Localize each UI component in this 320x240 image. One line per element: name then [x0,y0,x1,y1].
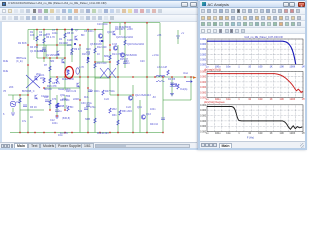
svg-text:(630,8): (630,8) [62,117,70,120]
svg-text:0.22: 0.22 [126,106,131,109]
resistor R22 [94,118,96,123]
transistor Q41 [120,53,124,57]
resistor R6 [94,63,96,68]
wire [103,22,160,24]
svg-text:db(mag(v(Out))): db(mag(v(Out))) [204,68,221,71]
junction [124,22,125,23]
resistor R7 [109,55,111,60]
svg-text:1K: 1K [269,66,272,69]
svg-text:100K: 100K [289,98,295,101]
wire [159,23,161,77]
resistor R13 [87,58,89,63]
svg-text:F (Hz): F (Hz) [246,136,253,140]
svg-text:10p: 10p [46,33,51,36]
svg-text:22K: 22K [40,77,45,80]
svg-text:BC546B_C: BC546B_C [55,105,68,108]
wire [37,44,72,46]
transistor Q3 [62,59,65,64]
svg-text:NFB: NFB [85,118,90,121]
resistor R4 [71,48,73,53]
wire [12,108,14,112]
svg-text:1M: 1M [301,98,304,101]
junction [146,132,147,133]
svg-text:Q10: Q10 [107,31,112,34]
capacitor C4 [55,110,59,112]
wire [43,30,45,63]
wire [146,23,148,133]
junction [71,29,72,30]
resistor R3 [64,33,66,38]
transistor Q2 [75,36,78,41]
wire [124,23,126,68]
battery V2 +63 [176,36,180,38]
resistor R9 [124,40,126,45]
junction [132,76,133,77]
svg-text:10K: 10K [279,132,284,135]
svg-text:meas_amp: meas_amp [58,88,71,91]
junction [64,76,65,77]
wire [27,30,29,133]
svg-text:170.000: 170.000 [200,77,207,79]
svg-text:MJL21194: MJL21194 [97,132,109,135]
junction [49,109,50,110]
junction [43,87,44,88]
svg-text:-63: -63 [152,96,156,99]
junction [27,132,28,133]
svg-text:R8 1K: R8 1K [67,32,74,35]
svg-text:Q30: Q30 [60,94,65,97]
svg-text:C5 100n: C5 100n [84,30,94,33]
node Out arrow [186,80,192,82]
svg-text:1: 1 [238,98,240,101]
wire [117,45,119,133]
svg-text:R47 62A: R47 62A [105,90,115,93]
svg-text:R12 220: R12 220 [97,46,107,49]
resistor R8 [117,60,119,65]
svg-text:BD139: BD139 [44,88,52,91]
transistor Q8 [128,96,132,100]
transistor Q6 [113,31,116,36]
svg-text:4.7K: 4.7K [79,66,84,69]
svg-text:100n: 100n [52,32,58,35]
junction [43,29,44,30]
resistor R34 [67,106,69,111]
svg-text:10K: 10K [279,98,284,101]
svg-text:10K: 10K [30,34,35,37]
svg-text:10: 10 [248,98,251,101]
svg-text:R4 150: R4 150 [30,46,39,49]
capacitor C3 [86,105,90,107]
diode pair X1 [100,68,108,78]
resistor R24 [67,70,69,75]
svg-text:BC: BC [70,106,74,109]
svg-text:100: 100 [258,132,263,135]
junction [43,57,44,58]
wire [139,100,141,133]
junction [27,64,28,65]
wire [28,29,103,31]
node marker [74,43,76,45]
junction [132,132,133,133]
junction [64,132,65,133]
resistor R11 [49,78,51,83]
svg-text:C30 470u: C30 470u [81,102,92,105]
svg-text:1u: 1u [59,110,62,113]
junction [56,115,57,116]
capacitor C2 [88,90,92,92]
junction [117,76,118,77]
junction [56,44,57,45]
capacitor C8 [123,62,127,64]
wire [94,30,96,133]
svg-text:1N: 1N [59,38,62,41]
junction [27,94,28,95]
svg-text:1K: 1K [269,132,272,135]
junction [56,57,57,58]
svg-text:R13 100: R13 100 [97,62,107,65]
junction [109,49,110,50]
junction [132,94,133,95]
junction [64,29,65,30]
inductor L3 [156,76,165,78]
ground [55,116,59,118]
svg-text:0.000: 0.000 [200,121,207,123]
capacitor C14 [45,100,49,102]
svg-text:40.000: 40.000 [200,39,207,41]
junction [64,57,65,58]
wire [79,45,81,133]
svg-text:1M: 1M [301,66,304,69]
resistor R2 [43,38,45,43]
svg-text:(C_E): (C_E) [16,60,23,63]
svg-text:+63: +63 [157,34,162,37]
svg-text:10m: 10m [58,134,63,137]
capacitor C30 [84,108,88,110]
wire [33,30,35,41]
diode pair X2 [108,68,116,78]
junction [64,109,65,110]
wire [95,61,110,63]
svg-text:100K: 100K [289,66,295,69]
svg-text:160.000: 160.000 [200,82,207,84]
junction [94,61,95,62]
junction [79,76,80,77]
wire [44,87,80,89]
svg-text:R9 1K: R9 1K [40,50,47,53]
svg-text:0.000: 0.000 [200,59,207,61]
resistor R21 [56,103,58,108]
wire [49,58,51,110]
wire [119,23,121,35]
svg-text:100n: 100n [150,108,156,111]
ground [11,113,15,115]
transistor Q5 [98,34,102,38]
svg-text:10K: 10K [279,66,284,69]
resistor R10 [49,66,51,71]
svg-text:68R: 68R [104,55,109,58]
svg-text:MJL: MJL [84,96,89,99]
svg-text:Q14: Q14 [99,40,104,43]
wire [71,30,73,63]
svg-text:140.000: 140.000 [200,92,207,94]
resistor R16 [119,110,121,115]
diode D2 [173,84,178,86]
svg-text:10m: 10m [226,66,231,69]
wire [87,30,89,133]
resistor R17 [167,70,169,75]
junction [79,99,80,100]
svg-text:10: 10 [248,66,251,69]
wire [50,76,193,78]
svg-text:Q20 MJL21194: Q20 MJL21194 [116,36,134,39]
svg-text:180.000: 180.000 [200,72,207,74]
diode D1 [170,84,175,86]
wire [132,85,134,133]
wire [10,132,163,134]
svg-text:220R: 220R [73,98,79,101]
svg-text:4148: 4148 [67,39,73,42]
svg-text:-30.000: -30.000 [200,126,207,128]
svg-text:20.000: 20.000 [200,49,207,51]
wire [163,99,191,101]
svg-text:470u: 470u [90,106,96,109]
svg-text:1K: 1K [269,98,272,101]
svg-text:MJE15030: MJE15030 [62,78,75,81]
svg-text:MJE: MJE [3,70,8,73]
svg-text:MJE: MJE [3,60,8,63]
transistor Q9 [141,115,145,119]
resistor R23 [117,120,119,125]
svg-text:546: 546 [78,110,83,113]
transistor Q1 [57,51,60,56]
junction [109,44,110,45]
svg-text:0.33: 0.33 [112,43,117,46]
capacitor C6 [170,83,174,85]
svg-text:R9 47: R9 47 [74,48,81,51]
svg-text:BD: BD [81,34,85,37]
junction [56,76,57,77]
svg-text:1: 1 [238,132,240,135]
wire [8,94,28,96]
svg-text:2SC5200C: 2SC5200C [125,54,137,57]
wire [102,30,104,63]
junction [87,29,88,30]
junction [19,94,20,95]
junction [109,22,110,23]
svg-text:R44 10: R44 10 [150,123,159,126]
wire [171,77,173,96]
svg-text:100n: 100n [52,122,58,125]
junction [117,132,118,133]
svg-text:Rx: Rx [67,71,71,73]
wire [95,77,110,79]
resistor R20 [49,100,51,105]
svg-text:Q13: Q13 [146,113,151,116]
svg-text:Out(A): Out(A) [180,88,188,91]
svg-text:60.000: 60.000 [200,110,207,112]
transistor Q10 [35,95,38,100]
junction [27,44,28,45]
svg-text:1K: 1K [30,116,33,119]
wire [190,77,192,100]
junction [19,132,20,133]
svg-text:20K: 20K [9,86,14,89]
svg-text:1M: 1M [301,132,304,135]
svg-text:R50: R50 [124,60,129,63]
svg-text:C20: C20 [140,60,145,63]
wire [36,30,38,59]
junction [154,76,155,77]
svg-text:Q31: Q31 [137,106,142,109]
svg-text:150.000: 150.000 [200,87,207,89]
svg-text:47K: 47K [52,98,57,101]
svg-text:BC546B_C: BC546B_C [22,90,35,93]
junction [79,44,80,45]
svg-text:Q2 2N5401: Q2 2N5401 [46,54,59,57]
wire [162,77,164,133]
svg-text:L3 2.2uH: L3 2.2uH [157,66,167,69]
svg-text:ph(v(Out)) Degrees: ph(v(Out)) Degrees [204,101,225,104]
junction [36,29,37,30]
probe arrow at right edge [193,76,197,79]
junction [109,76,110,77]
junction [146,22,147,23]
junction [94,29,95,30]
junction [34,132,35,133]
svg-text:1: 1 [238,66,240,69]
wire [64,95,66,110]
svg-text:+63V: +63V [127,28,133,31]
svg-text:C14 1u: C14 1u [41,95,50,98]
svg-text:10: 10 [97,53,100,56]
svg-text:100: 100 [258,66,263,69]
ground [170,94,174,96]
junction [87,132,88,133]
wire [102,23,104,30]
capacitor C5 [23,105,27,107]
wire [177,30,179,44]
junction [99,132,100,133]
junction [87,87,88,88]
svg-text:100: 100 [258,98,263,101]
svg-text:Q6 BD139: Q6 BD139 [90,43,102,46]
resistor R33 [57,103,59,108]
junction [49,57,50,58]
junction [146,76,147,77]
svg-text:47: 47 [67,74,70,76]
svg-text:R61 2R2: R61 2R2 [122,110,132,113]
wire [110,94,133,96]
svg-text:100K: 100K [289,132,295,135]
resistor R15 [109,108,111,113]
annotation ellipse [65,67,73,79]
svg-text:V5: V5 [3,90,7,93]
resistor R5 [94,48,96,53]
svg-text:Vout: Vout [183,72,188,75]
junction [171,76,172,77]
svg-text:6: 6 [3,113,5,116]
svg-text:10m: 10m [226,132,231,135]
svg-text:0.22: 0.22 [104,98,109,101]
svg-text:100u: 100u [214,132,220,135]
svg-text:+V: +V [181,32,184,35]
svg-text:30.000: 30.000 [200,116,207,118]
svg-text:47u: 47u [22,120,27,123]
wire [64,30,66,91]
svg-text:R6 4.7K: R6 4.7K [46,36,55,39]
junction [117,94,118,95]
svg-text:220: 220 [86,51,91,54]
source V1 [10,101,16,107]
svg-text:Q40 MJL21194: Q40 MJL21194 [127,43,145,46]
capacitor C1 [42,48,46,50]
wire [20,109,44,111]
junction [87,76,88,77]
resistor R1 [36,36,38,41]
svg-text:R31: R31 [112,114,117,117]
wire [37,57,65,59]
node marker [71,29,73,31]
svg-text:R40 4R7: R40 4R7 [115,28,125,31]
junction [64,29,65,30]
resistor R12 [56,78,58,83]
junction [43,132,44,133]
current source I1 [76,68,79,74]
svg-text:2R2: 2R2 [112,108,117,111]
svg-text:R3 1K: R3 1K [30,106,37,109]
wire [19,95,21,133]
svg-text:R2 6K8: R2 6K8 [18,42,27,45]
node marker [101,40,103,42]
svg-text:90.000: 90.000 [200,105,207,107]
junction [184,76,185,77]
svg-text:R7: R7 [44,64,48,67]
junction [109,61,110,62]
svg-text:C7 100n: C7 100n [90,90,100,93]
junction [109,132,110,133]
transistor Q11 [35,76,38,81]
svg-text:10.000: 10.000 [200,54,207,56]
svg-text:10m: 10m [226,98,231,101]
svg-text:R26 47K: R26 47K [47,85,57,88]
junction [56,29,57,30]
capacitor C7 [161,118,165,120]
svg-text:556: 556 [66,95,71,98]
transistor Q4 [77,83,80,88]
wire [56,30,58,59]
node marker [87,57,89,59]
junction [162,76,163,77]
svg-text:C10 100n: C10 100n [97,23,108,26]
svg-text:680: 680 [50,60,55,63]
wire [12,95,14,100]
svg-text:+1.5m: +1.5m [152,54,159,57]
junction [36,44,37,45]
svg-text:D3: D3 [70,53,74,56]
wire [109,23,111,95]
resistor R18 [177,84,179,89]
resistor R19 [19,98,21,103]
wire [45,45,47,58]
wire [56,95,58,116]
resistor R17b [156,80,164,82]
junction [54,132,55,133]
transistor Q7 [113,46,117,50]
svg-text:30.000: 30.000 [200,44,207,46]
resistor R14 [102,90,104,95]
svg-text:1u: 1u [205,132,208,135]
svg-text:Q12 2SA1943: Q12 2SA1943 [135,94,151,97]
